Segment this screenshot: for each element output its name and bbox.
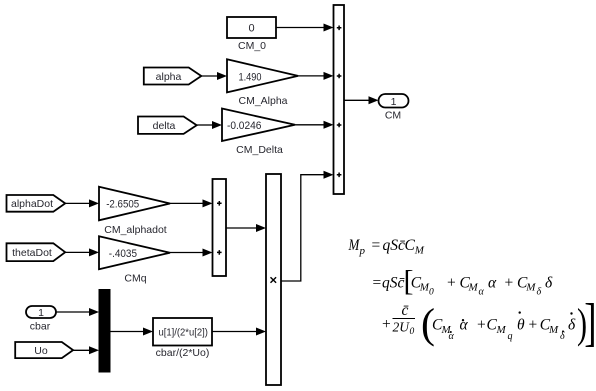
annotation equation line 3: + cbar/(2U0) ( CMad ad + CMq thd + CMdd dd ) ] <box>381 292 596 351</box>
gain CM_alphadot value -2.6505 <box>99 187 170 221</box>
wire cbar to Mux input 1 <box>56 308 99 316</box>
svg-text:1.490: 1.490 <box>239 71 262 83</box>
svg-text:α: α <box>479 287 485 298</box>
wire gain CM_Delta to Sum1 input 3 <box>295 121 334 129</box>
svg-text:CM_0: CM_0 <box>238 40 266 52</box>
svg-text:=: = <box>372 275 382 292</box>
svg-text:qSc̄: qSc̄ <box>383 237 406 254</box>
svg-text:CM_alphadot: CM_alphadot <box>104 224 167 236</box>
wire gain CMq to Sum2 input 2 <box>170 249 213 257</box>
svg-text:2U: 2U <box>393 320 411 335</box>
fcn block u[1]/(2*u[2]) <box>153 318 212 346</box>
gain CM_Alpha value 1.490 <box>227 59 298 92</box>
wire alpha to gain CM_Alpha <box>201 72 227 80</box>
svg-text:δ: δ <box>568 317 576 334</box>
outport 1 CM <box>379 94 409 108</box>
svg-text:thetaDot: thetaDot <box>12 247 52 259</box>
wire alphaDot to gain CM_alphadot <box>65 199 99 207</box>
svg-text:qSc̄: qSc̄ <box>382 275 405 292</box>
svg-text:M: M <box>468 282 479 294</box>
sum block Sum2 <box>213 179 227 276</box>
svg-text:1: 1 <box>38 307 44 319</box>
annotation equation line 1: Mp = qSc&#772;CM <box>348 237 425 257</box>
wire Sum1 to outport CM <box>344 96 379 104</box>
svg-text:+: + <box>446 275 456 292</box>
svg-text:-0.0246: -0.0246 <box>227 120 262 132</box>
source constant 1 cbar <box>26 306 56 319</box>
svg-text:α: α <box>488 275 497 292</box>
svg-text:1: 1 <box>391 96 397 108</box>
svg-text:δ: δ <box>537 287 542 298</box>
svg-text:p: p <box>359 245 366 257</box>
svg-text:δ: δ <box>560 331 565 342</box>
svg-text:]: ] <box>584 292 596 351</box>
wire constant CM_0 to Sum1 input 1 <box>276 24 334 32</box>
svg-text:+: + <box>476 317 486 334</box>
input tag alpha <box>144 68 202 85</box>
svg-text:M: M <box>548 324 559 336</box>
svg-text:M: M <box>348 237 361 254</box>
svg-text:+: + <box>504 275 514 292</box>
gain CMq value -.4035 <box>99 236 170 269</box>
gain CM_Delta value -0.0246 <box>222 109 295 142</box>
svg-text:θ: θ <box>517 317 525 334</box>
svg-text:0: 0 <box>248 23 254 35</box>
svg-text:delta: delta <box>153 120 176 132</box>
wire product to Sum1 input 4 <box>281 171 334 281</box>
svg-text:-2.6505: -2.6505 <box>106 199 139 211</box>
mux block <box>99 290 110 373</box>
svg-text:0: 0 <box>429 287 434 297</box>
svg-text:M: M <box>496 324 507 336</box>
constant CM_0 <box>227 17 276 38</box>
svg-text:=: = <box>371 237 381 254</box>
product block <box>266 174 281 385</box>
wire delta to gain CM_Delta <box>197 121 222 129</box>
svg-text:0: 0 <box>410 327 415 337</box>
svg-text:δ: δ <box>545 275 553 292</box>
svg-text:alpha: alpha <box>156 71 182 83</box>
input tag thetaDot <box>7 243 66 261</box>
annotation equation line 2: = qSc[ CM0 + CMa a + CMd d <box>372 265 554 298</box>
svg-text:+: + <box>528 317 538 334</box>
wire gain CM_Alpha to Sum1 input 2 <box>298 72 334 80</box>
svg-text:CM: CM <box>385 110 401 122</box>
svg-text:+: + <box>381 316 391 333</box>
svg-text:CM_Alpha: CM_Alpha <box>238 95 287 107</box>
sum block Sum1 <box>334 5 345 194</box>
svg-text:CM_Delta: CM_Delta <box>236 144 283 156</box>
wire Uo to Mux input 2 <box>73 346 99 354</box>
input tag delta <box>138 117 197 134</box>
input tag Uo <box>15 342 73 358</box>
svg-text:M: M <box>525 282 536 294</box>
svg-text:q: q <box>508 331 513 342</box>
wire Sum2 to product input 1 <box>226 224 266 232</box>
svg-text:M: M <box>414 245 425 257</box>
svg-text:alphaDot: alphaDot <box>11 198 53 210</box>
svg-text:c̄: c̄ <box>402 302 409 319</box>
wire gain CM_alphadot to Sum2 input 1 <box>170 199 213 207</box>
svg-text:CMq: CMq <box>124 273 146 285</box>
svg-text:Uo: Uo <box>34 345 48 357</box>
wire Mux to fcn block <box>110 328 153 336</box>
svg-text:cbar: cbar <box>30 321 51 333</box>
svg-text:α: α <box>460 317 469 334</box>
svg-text:cbar/(2*Uo): cbar/(2*Uo) <box>156 347 210 359</box>
wire thetaDot to gain CMq <box>65 248 99 256</box>
svg-text:u[1]/(2*u[2]): u[1]/(2*u[2]) <box>158 326 208 338</box>
svg-text:-.4035: -.4035 <box>109 248 137 260</box>
input tag alphaDot <box>7 195 66 212</box>
wire fcn block to product input 2 <box>212 328 266 336</box>
